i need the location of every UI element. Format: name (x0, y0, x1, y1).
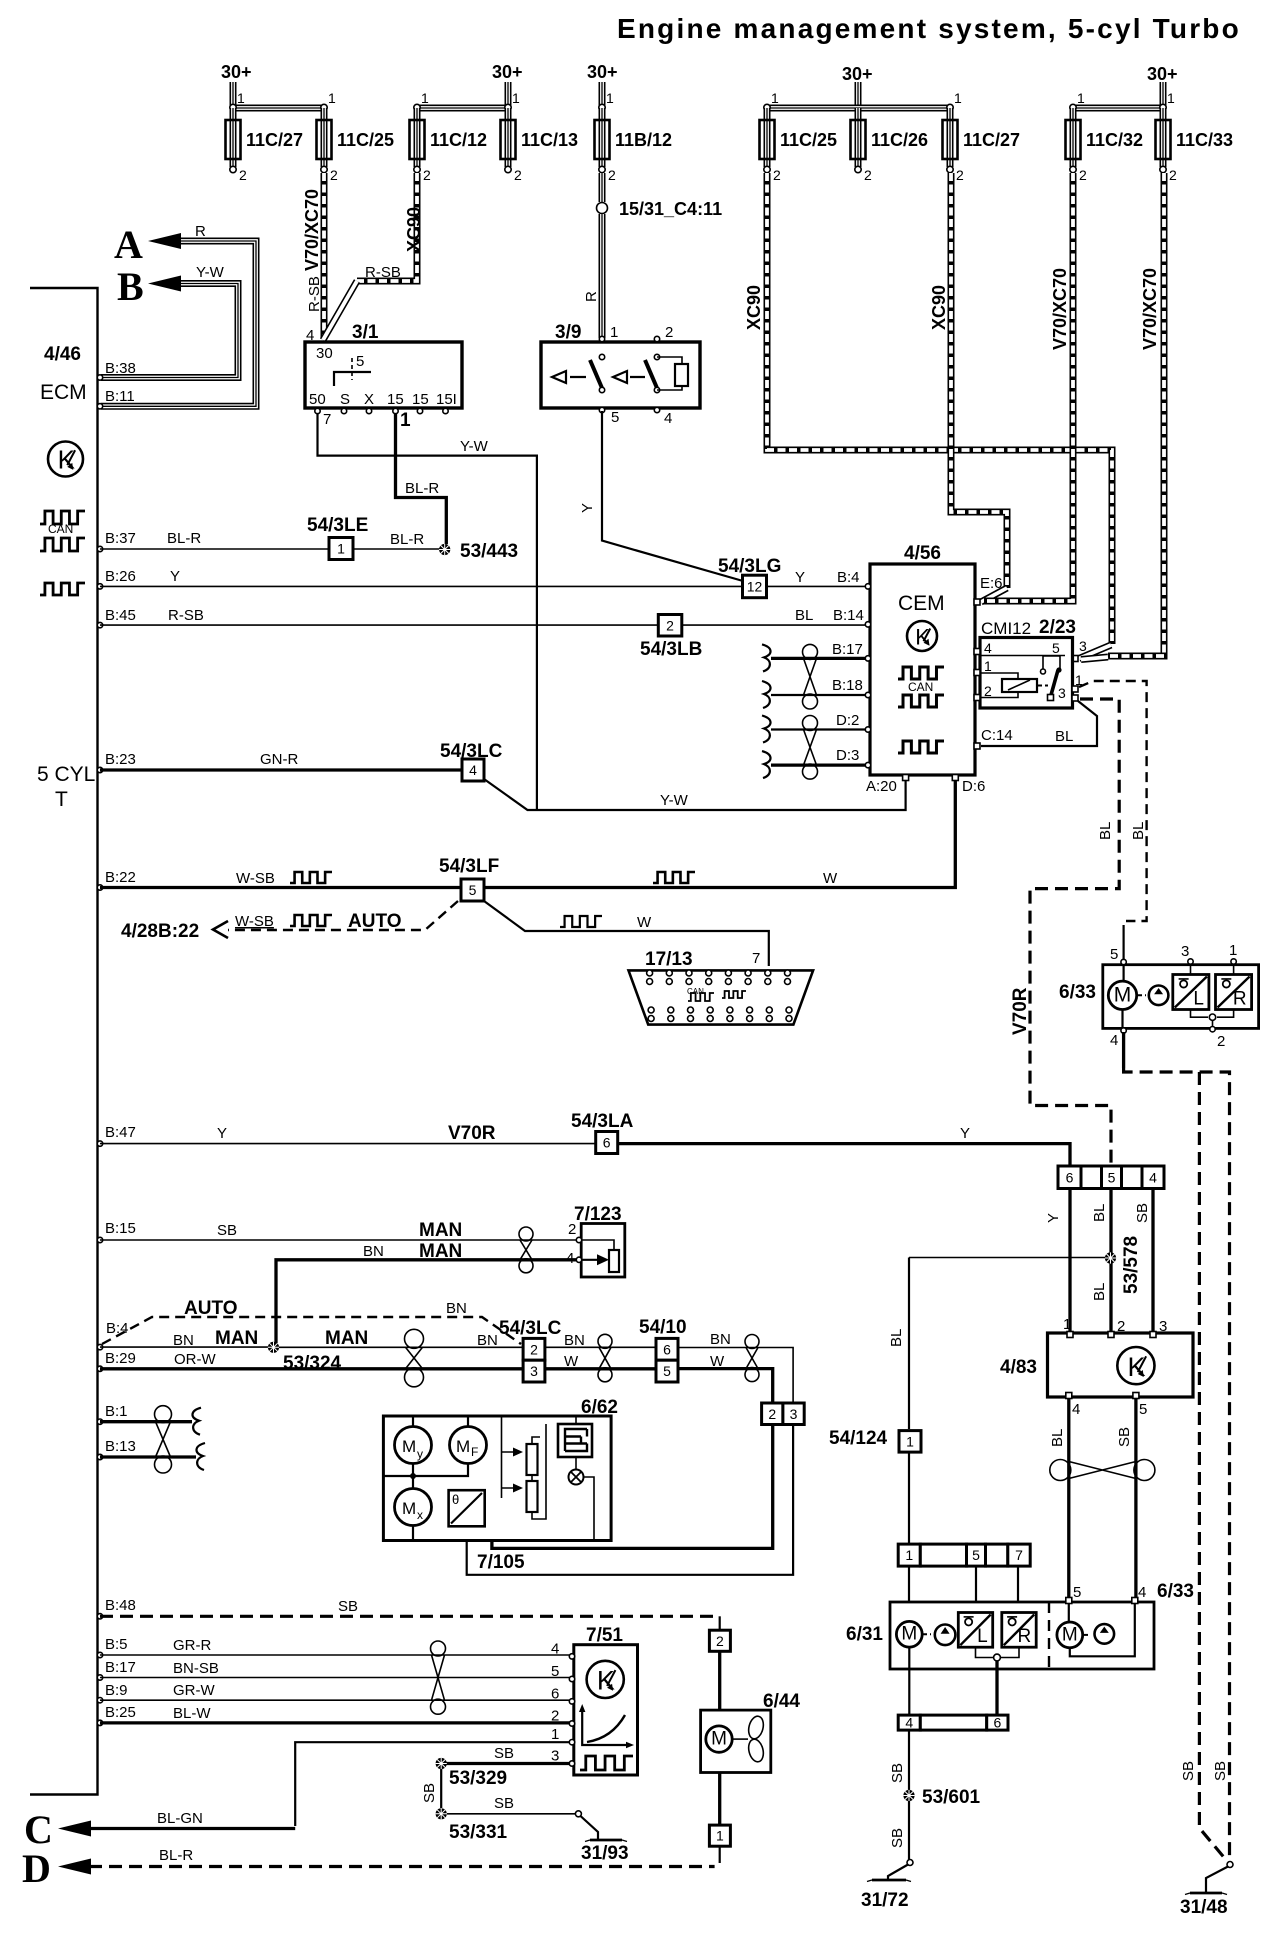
svg-text:2: 2 (423, 167, 431, 183)
svg-text:2/23: 2/23 (1039, 617, 1076, 638)
twisted pair BN/OR-W (405, 1329, 424, 1348)
3/9 pin 1 (599, 336, 604, 341)
wire W cell2 to 6/62 (492, 1425, 773, 1549)
svg-text:54/3LB: 54/3LB (640, 639, 702, 660)
svg-text:SB: SB (338, 1598, 358, 1615)
6/33 pump (1149, 986, 1169, 1006)
svg-text:W: W (564, 1353, 579, 1370)
twisted pair B:1/B:13 (155, 1406, 172, 1423)
svg-text:B:45: B:45 (105, 607, 136, 624)
svg-text:BL: BL (1097, 822, 1114, 840)
pin B:38 (97, 375, 102, 380)
6/33b pump (1095, 1624, 1115, 1644)
wire B:13 shielded stub (100, 1455, 196, 1458)
svg-text:Engine management system, 5-cy: Engine management system, 5-cyl Turbo (617, 13, 1241, 44)
3/9 switch contacts (552, 371, 586, 383)
svg-text:5: 5 (1110, 946, 1118, 963)
fuse 11C/13 (505, 108, 512, 167)
svg-text:BL-R: BL-R (167, 530, 201, 547)
pin B:17b (97, 1675, 102, 1680)
svg-text:A:20: A:20 (866, 778, 897, 795)
pin B:5 (97, 1652, 102, 1657)
svg-text:Y: Y (217, 1125, 227, 1142)
svg-text:1: 1 (716, 1828, 724, 1844)
svg-text:15/31_C4:11: 15/31_C4:11 (619, 199, 722, 219)
svg-text:1: 1 (400, 410, 411, 431)
wire to 6/44 (718, 1651, 721, 1710)
svg-text:30+: 30+ (587, 62, 618, 82)
svg-text:11C/33: 11C/33 (1176, 130, 1233, 150)
svg-text:B:37: B:37 (105, 530, 136, 547)
pin 2/23 3 (1072, 695, 1078, 701)
6/33 pin 4 (1121, 1010, 1123, 1029)
svg-text:2: 2 (956, 167, 964, 183)
svg-text:1: 1 (337, 541, 345, 557)
svg-text:M: M (456, 1437, 470, 1456)
svg-text:CAN: CAN (687, 987, 704, 996)
6/31 R sensor (1002, 1613, 1036, 1648)
motor My (412, 1416, 414, 1427)
wire W from 54/10 to cell2 (678, 1369, 773, 1403)
pin 7/51 1 (569, 1740, 574, 1745)
wire BN from 54/10 to cell3 (678, 1348, 793, 1404)
svg-text:L: L (977, 1626, 988, 1647)
wiper assembly 6/33 (1103, 965, 1259, 1029)
pin B:4 (97, 1344, 102, 1349)
wire fuse link cluster2 (417, 105, 508, 112)
svg-text:W-SB: W-SB (236, 870, 275, 887)
relay 3/9 (541, 342, 700, 408)
6/33 L sensor (1173, 975, 1209, 1010)
svg-text:6/62: 6/62 (581, 1397, 618, 1418)
svg-text:2: 2 (1217, 1033, 1225, 1050)
svg-text:BL-R: BL-R (159, 1847, 193, 1864)
svg-text:30+: 30+ (842, 64, 873, 84)
ECU 4/46 ECM (30, 288, 98, 1795)
wire BL C:14 to 2/23 pin3 (981, 701, 1097, 746)
wire BL dashed from 2/23 pin3 via V70R (1030, 699, 1119, 1164)
svg-text:6/33: 6/33 (1157, 1581, 1194, 1602)
wire BL to CEM B:14 (682, 624, 868, 626)
pin 4/83 4 (1066, 1393, 1072, 1399)
temp sensor box (449, 1490, 485, 1526)
svg-text:53/443: 53/443 (460, 541, 518, 562)
6/33 inner bottom wiring (1191, 1010, 1234, 1018)
svg-text:15: 15 (412, 391, 429, 408)
pin B:37 (97, 546, 102, 551)
svg-text:54/3LE: 54/3LE (307, 515, 368, 536)
wire XC90 from 11C/27b to CEM E:6 (951, 173, 1007, 588)
connector cells 2 3 (762, 1403, 783, 1425)
wire BL-GN to C (89, 1827, 295, 1830)
svg-text:AUTO: AUTO (184, 1298, 237, 1319)
svg-text:θ: θ (452, 1492, 459, 1507)
svg-text:B:17: B:17 (105, 1659, 136, 1676)
svg-text:B:1: B:1 (105, 1403, 128, 1420)
svg-text:5: 5 (972, 1547, 980, 1563)
svg-text:1: 1 (421, 90, 429, 106)
wire BL to 54/124 (909, 1257, 1105, 1259)
svg-text:1: 1 (906, 1433, 914, 1449)
svg-text:Y: Y (960, 1125, 970, 1142)
pin B:26 (97, 584, 102, 589)
svg-text:GR-W: GR-W (173, 1682, 215, 1699)
svg-text:GR-R: GR-R (173, 1637, 211, 1654)
wire R from 11B/12 to connector 15/31_C4:11 (599, 173, 606, 202)
svg-text:2: 2 (1169, 167, 1177, 183)
svg-text:R: R (1017, 1626, 1031, 1647)
svg-text:6: 6 (603, 1135, 611, 1151)
svg-text:5: 5 (1139, 1401, 1147, 1418)
6/31 pump (935, 1625, 956, 1646)
wires into 6/31 (908, 1566, 910, 1621)
svg-text:5: 5 (356, 353, 364, 370)
connector 15/31_C4:11 (597, 203, 608, 214)
svg-text:R: R (583, 291, 600, 302)
svg-text:W: W (637, 914, 652, 931)
pin B:11 (97, 404, 102, 409)
connector row 6 5 4 (1058, 1166, 1081, 1189)
svg-text:11C/27: 11C/27 (963, 130, 1020, 150)
wire GR-R (100, 1654, 570, 1656)
svg-text:53/329: 53/329 (449, 1768, 507, 1789)
6/31 L sensor (958, 1613, 992, 1648)
svg-text:BL-R: BL-R (405, 480, 439, 497)
motor MF (467, 1416, 469, 1427)
wire V70/XC70 from 11C/32 to CEM E:6 (984, 173, 1073, 601)
splice 53/601 (903, 1790, 914, 1801)
svg-text:54/3LC: 54/3LC (499, 1318, 562, 1339)
fuse 11C/26 (855, 108, 862, 167)
svg-text:B:18: B:18 (832, 677, 863, 694)
svg-text:SB: SB (889, 1763, 906, 1783)
wire R loop A to ECM B:11 (101, 241, 256, 406)
svg-text:15: 15 (387, 391, 404, 408)
wire R-SB diagonal into 3/1 pin 30 (323, 281, 357, 340)
svg-text:4: 4 (566, 1250, 574, 1267)
svg-text:11C/13: 11C/13 (521, 130, 578, 150)
svg-text:4: 4 (1110, 1032, 1118, 1049)
svg-text:3: 3 (1079, 638, 1087, 654)
svg-text:50: 50 (309, 391, 326, 408)
ground 31/72 (907, 1860, 913, 1866)
twisted pair 7/51 wires (431, 1641, 446, 1656)
svg-text:2: 2 (330, 167, 338, 183)
svg-text:SB: SB (494, 1795, 514, 1812)
svg-text:30+: 30+ (1147, 64, 1178, 84)
svg-text:A: A (114, 222, 143, 267)
svg-text:2: 2 (530, 1341, 538, 1357)
wire AUTO BN dashed (102, 1317, 521, 1344)
svg-text:BN: BN (477, 1332, 498, 1349)
svg-text:2: 2 (1079, 167, 1087, 183)
svg-text:2: 2 (666, 617, 674, 633)
inner column (502, 1416, 515, 1498)
pin B:1 (97, 1419, 102, 1424)
svg-text:R-SB: R-SB (168, 607, 204, 624)
svg-text:2: 2 (864, 167, 872, 183)
3/9 pin 2 (654, 336, 659, 341)
svg-text:Y: Y (795, 569, 805, 586)
fuse 11C/27 (947, 108, 954, 167)
pin B:45 (97, 622, 102, 627)
svg-text:5: 5 (1108, 1169, 1116, 1185)
svg-text:1: 1 (237, 90, 245, 106)
wire SB to ground 31/72 (908, 1801, 910, 1860)
svg-text:Y-W: Y-W (196, 264, 225, 281)
svg-text:XC90: XC90 (404, 207, 424, 252)
pin B:47 (97, 1141, 102, 1146)
switch symbol in 3/1 (334, 372, 371, 386)
fuse 11C/27 (230, 108, 237, 167)
wire BN MAN splice to 54/3LC (279, 1346, 523, 1348)
twisted pair BL/SB (1050, 1460, 1071, 1481)
svg-text:CAN: CAN (48, 522, 73, 536)
svg-text:1: 1 (905, 1547, 913, 1563)
wire BN MAN B:4 to splice (100, 1346, 268, 1348)
svg-text:BL: BL (1055, 728, 1073, 745)
2/23 coil (980, 673, 1018, 698)
connector 54/3LB (658, 615, 682, 637)
wire SB to ground 31/93 (447, 1813, 575, 1815)
svg-text:5: 5 (1073, 1584, 1081, 1601)
svg-text:1: 1 (512, 90, 520, 106)
6/33 pin 5 (1122, 958, 1124, 981)
svg-text:BN: BN (446, 1300, 467, 1317)
svg-text:31/48: 31/48 (1180, 1897, 1228, 1918)
pin B:48 (97, 1614, 102, 1619)
wire D:3 shielded (771, 763, 866, 766)
6/31 sensor junction (976, 1647, 1020, 1657)
svg-text:B:15: B:15 (105, 1220, 136, 1237)
svg-text:4/46: 4/46 (44, 344, 81, 365)
svg-text:V70/XC70: V70/XC70 (1140, 268, 1160, 350)
svg-text:B:26: B:26 (105, 568, 136, 585)
twisted pair after 54/3LC (598, 1334, 612, 1348)
svg-text:B:25: B:25 (105, 1704, 136, 1721)
6/33b inner wiring (1069, 1603, 1135, 1656)
fuse 11C/25 (321, 108, 328, 167)
svg-text:B:9: B:9 (105, 1682, 128, 1699)
wire diagonal to 2/23 pin3 (1079, 645, 1111, 659)
svg-text:3: 3 (1159, 1318, 1167, 1335)
svg-text:2: 2 (1117, 1318, 1125, 1335)
svg-text:R: R (1233, 989, 1247, 1010)
svg-text:M: M (711, 1729, 727, 1750)
wire Y-W to CEM A:20 (484, 779, 906, 810)
7/51 graph icon (582, 1709, 629, 1745)
svg-text:D:3: D:3 (836, 747, 859, 764)
splice 53/443 (439, 544, 450, 555)
6/33b pins (1066, 1598, 1072, 1604)
wire BL-W (100, 1721, 570, 1724)
svg-text:BL: BL (1091, 1204, 1108, 1222)
svg-text:XC90: XC90 (929, 285, 949, 330)
svg-text:1: 1 (954, 90, 962, 106)
pin CEM E:6 (974, 599, 980, 605)
svg-text:x: x (417, 1508, 423, 1522)
square wave symbol in ECM (40, 583, 85, 595)
wire BL dashed from 2/23 pin1 (1079, 681, 1147, 921)
wire SB 4/83 pin5 to 6/33 pin4 (1134, 1398, 1137, 1598)
svg-text:MAN: MAN (419, 1241, 462, 1262)
svg-text:5: 5 (469, 882, 477, 898)
wire Y cell6 to 4/83 pin1 (1068, 1189, 1071, 1332)
pin CEM C:14 (974, 743, 980, 749)
svg-text:SB: SB (1116, 1427, 1133, 1447)
pin B:9 (97, 1698, 102, 1703)
svg-text:D: D (22, 1846, 51, 1891)
svg-text:1: 1 (1229, 942, 1237, 959)
svg-text:B:5: B:5 (105, 1636, 128, 1653)
wire B:17 shielded (771, 657, 866, 660)
svg-text:SB: SB (494, 1745, 514, 1762)
svg-text:4/83: 4/83 (1000, 1357, 1037, 1378)
wire R-SB B:45 (100, 624, 658, 626)
connector row 1 5 7 (898, 1544, 920, 1566)
svg-text:E:6: E:6 (980, 575, 1003, 592)
svg-text:4: 4 (1149, 1169, 1157, 1185)
svg-text:BN: BN (363, 1243, 384, 1260)
svg-text:6/31: 6/31 (846, 1624, 883, 1645)
svg-text:54/3LF: 54/3LF (439, 856, 499, 877)
pin 7/51 3 (569, 1761, 574, 1766)
svg-text:6: 6 (993, 1715, 1001, 1731)
svg-text:4: 4 (905, 1715, 913, 1731)
6/31 motor wires (908, 1647, 910, 1714)
CAN symbol in ECM (40, 511, 85, 524)
svg-text:B:38: B:38 (105, 360, 136, 377)
3/9 pin 4 (654, 407, 659, 412)
svg-text:BL: BL (1049, 1429, 1066, 1447)
svg-text:4/56: 4/56 (904, 543, 941, 564)
svg-text:7/105: 7/105 (477, 1552, 525, 1573)
svg-text:1: 1 (771, 90, 779, 106)
svg-text:6: 6 (663, 1341, 671, 1357)
svg-text:SB: SB (889, 1828, 906, 1848)
svg-text:V70R: V70R (1010, 987, 1031, 1035)
svg-text:2: 2 (608, 167, 616, 183)
svg-text:1: 1 (551, 1726, 559, 1743)
svg-text:X: X (364, 391, 374, 408)
svg-text:4: 4 (664, 410, 672, 427)
pin CEM B:18 (865, 692, 870, 697)
svg-text:K: K (58, 445, 76, 475)
pin B:23 (97, 767, 102, 772)
twisted pair B:15/BN (519, 1227, 533, 1241)
pin 7/51 4 (569, 1654, 574, 1659)
wire Y B:26 to 54/3LG (100, 585, 742, 587)
wire W-SB AUTO dashed to 4/28B:22 (228, 901, 458, 930)
svg-text:3/1: 3/1 (352, 322, 379, 343)
6/33 pin 1 stub (1231, 959, 1236, 964)
wire B:18 shielded (771, 694, 866, 696)
svg-text:BN: BN (710, 1331, 731, 1348)
wire BL cell5 to 4/83 pin2 (1109, 1189, 1112, 1332)
wire Y-W loop B to ECM B:38 (101, 284, 238, 378)
wire SB 53/329 to 7/51 pin3 (446, 1762, 570, 1765)
6/33 pin 2 (1210, 1027, 1215, 1032)
svg-text:B:48: B:48 (105, 1597, 136, 1614)
svg-text:R-SB: R-SB (306, 276, 323, 312)
svg-text:SB: SB (1212, 1761, 1229, 1781)
svg-text:2: 2 (239, 167, 247, 183)
pin CEM A:20 (903, 775, 909, 781)
svg-text:OR-W: OR-W (174, 1351, 216, 1368)
svg-text:15I: 15I (436, 391, 457, 408)
svg-text:7/51: 7/51 (586, 1625, 623, 1646)
wire W to 17/13 (484, 901, 769, 966)
svg-text:M: M (901, 1624, 917, 1645)
svg-text:T: T (55, 788, 68, 811)
svg-text:W-SB: W-SB (235, 913, 274, 930)
svg-text:BL-R: BL-R (390, 531, 424, 548)
wire Y to CEM B:4 (767, 585, 868, 587)
svg-text:1: 1 (610, 324, 618, 341)
svg-text:B:14: B:14 (833, 607, 864, 624)
pin B:13 (97, 1454, 102, 1459)
pin B:15 (97, 1237, 102, 1242)
svg-text:5: 5 (611, 409, 619, 426)
svg-text:12: 12 (747, 578, 763, 594)
twisted pair BN/W (745, 1335, 759, 1349)
6/33 R sensor (1216, 975, 1252, 1010)
svg-text:31/72: 31/72 (861, 1890, 909, 1911)
svg-text:31/93: 31/93 (581, 1843, 629, 1864)
svg-text:BL: BL (795, 607, 813, 624)
svg-text:D:2: D:2 (836, 712, 859, 729)
fuse 11C/32 (1070, 108, 1077, 167)
splice 53/324 (268, 1342, 279, 1353)
wire BN to 54/10 (545, 1346, 656, 1348)
svg-text:30: 30 (316, 345, 333, 362)
pot resistors (527, 1444, 538, 1475)
svg-text:SB: SB (217, 1222, 237, 1239)
svg-text:7: 7 (752, 950, 760, 967)
svg-text:3: 3 (530, 1363, 538, 1379)
svg-text:M: M (1062, 1624, 1078, 1645)
svg-text:W: W (710, 1353, 725, 1370)
svg-text:CAN: CAN (908, 680, 933, 694)
twisted pair symbol D:2/D:3 (803, 716, 818, 731)
svg-text:11C/32: 11C/32 (1086, 130, 1143, 150)
svg-text:5: 5 (1052, 640, 1060, 656)
wire Y from 3/9 pin5 (602, 411, 743, 581)
wire BL 4/83 pin4 to 6/33 pin5 (1067, 1398, 1070, 1598)
svg-text:K: K (915, 624, 930, 649)
pin CEM B:14 (865, 622, 870, 627)
wire SB to splice 53/601 (908, 1730, 910, 1790)
pin 2/23 1 (1072, 686, 1078, 692)
splice 53/329 (436, 1758, 447, 1769)
wire 7/51 pin1 to BL-GN (295, 1742, 570, 1826)
svg-text:2: 2 (768, 1406, 776, 1422)
svg-text:B:4: B:4 (837, 569, 860, 586)
wire SB dashed B:48 (100, 1615, 715, 1618)
CAN symbol in CEM (898, 667, 944, 679)
svg-text:SB: SB (1134, 1203, 1151, 1223)
motor Mx (395, 1489, 432, 1526)
svg-text:AUTO: AUTO (348, 911, 401, 932)
svg-text:2: 2 (665, 324, 673, 341)
svg-text:4/28B:22: 4/28B:22 (121, 921, 199, 942)
svg-text:1: 1 (606, 90, 614, 106)
svg-text:1: 1 (1077, 90, 1085, 106)
svg-text:11B/12: 11B/12 (615, 130, 672, 150)
svg-text:K: K (597, 1666, 615, 1696)
3/9 pin 5 (599, 407, 604, 412)
wire W to 54/10 (545, 1367, 656, 1370)
